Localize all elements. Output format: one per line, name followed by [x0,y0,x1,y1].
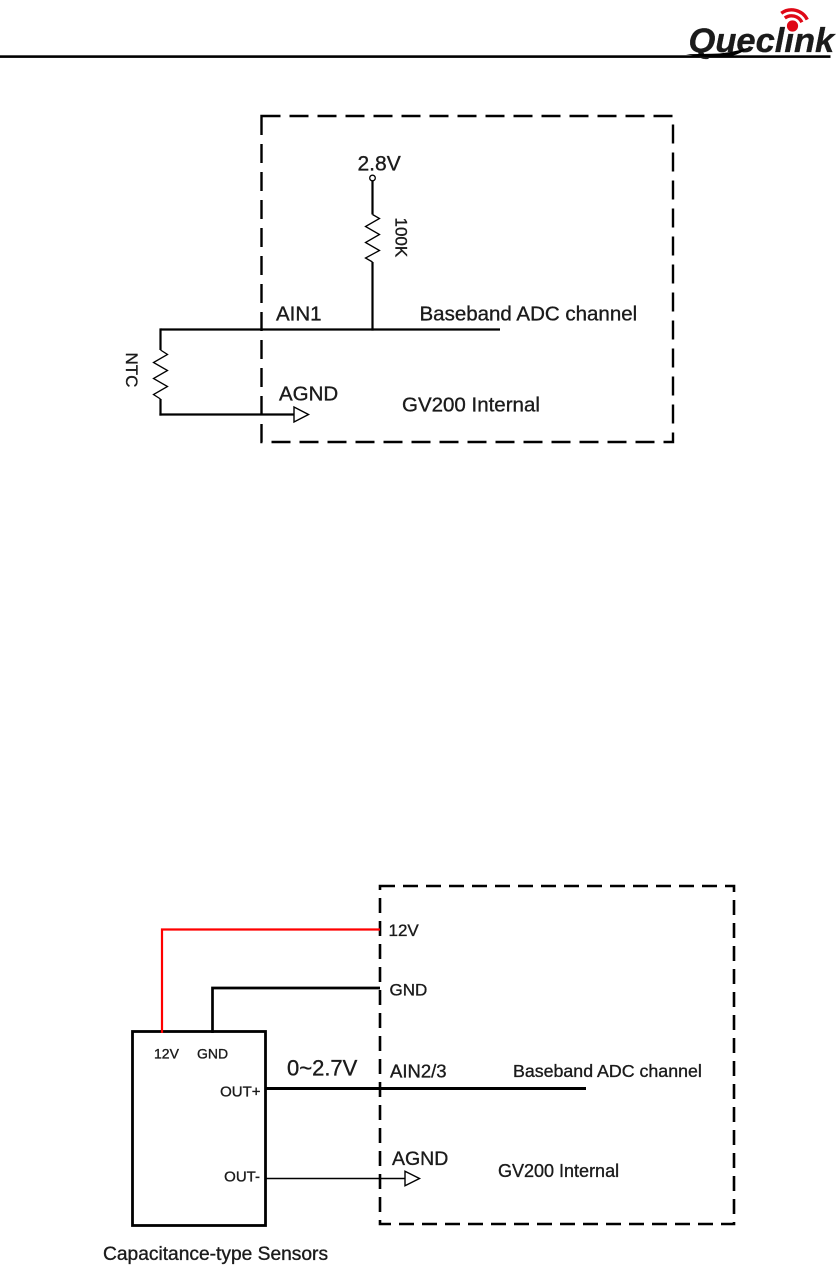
svg-text:AGND: AGND [392,1148,448,1170]
svg-text:GND: GND [390,981,428,1000]
svg-text:NTC: NTC [122,353,141,388]
svg-text:OUT-: OUT- [224,1169,260,1186]
svg-text:0~2.7V: 0~2.7V [287,1056,358,1081]
svg-text:12V: 12V [389,921,420,940]
svg-text:OUT+: OUT+ [220,1084,261,1101]
svg-text:12V: 12V [154,1046,180,1062]
svg-text:AGND: AGND [279,383,338,406]
svg-text:GND: GND [197,1046,228,1062]
svg-text:Baseband ADC channel: Baseband ADC channel [420,303,638,326]
svg-text:GV200 Internal: GV200 Internal [402,394,540,417]
svg-text:100K: 100K [392,218,411,258]
svg-text:AIN2/3: AIN2/3 [390,1061,447,1082]
svg-text:Capacitance-type Sensors: Capacitance-type Sensors [103,1244,328,1265]
svg-text:GV200 Internal: GV200 Internal [498,1161,619,1181]
svg-text:AIN1: AIN1 [276,303,322,326]
svg-text:2.8V: 2.8V [358,153,401,176]
svg-text:Baseband ADC channel: Baseband ADC channel [513,1061,702,1081]
